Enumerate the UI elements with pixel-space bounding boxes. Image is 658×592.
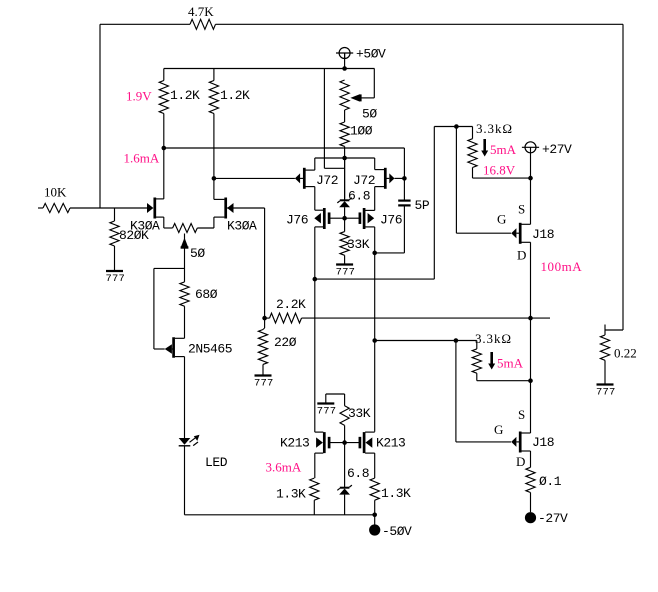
wire output rail <box>302 317 551 319</box>
label 1.9V <box>126 89 152 104</box>
svg-text:16.8V: 16.8V <box>483 163 516 178</box>
wire K213 gate to zener <box>344 443 346 488</box>
wire 1.2K rail drop <box>324 69 344 169</box>
wire right K30A gate <box>227 208 265 318</box>
node -50V junction <box>372 513 377 518</box>
svg-text:5mA: 5mA <box>490 142 517 157</box>
wire -50V stub <box>374 515 376 525</box>
node +50V rail junction <box>342 66 347 71</box>
wire 2N5465 source to LED <box>184 357 186 438</box>
capacitor C1 5P <box>398 201 410 206</box>
wire cascode output rail <box>315 127 473 280</box>
wire input left lead <box>38 207 43 209</box>
node K213 gate junction <box>342 440 347 445</box>
zener D2 6.8 upper <box>337 198 352 208</box>
wire left 1.2K top lead <box>163 69 165 81</box>
svg-text:J76: J76 <box>380 213 402 228</box>
label J72 right <box>353 173 375 188</box>
resistor R 220 <box>258 330 267 365</box>
label 2N5465 <box>188 342 232 357</box>
label 2.2K <box>276 297 306 312</box>
svg-text:G: G <box>497 212 506 227</box>
wire right 1.2K top lead <box>213 69 215 81</box>
label 1.3K left <box>276 487 306 502</box>
label LED <box>205 455 228 470</box>
wire 3.3k lower bottom <box>477 373 531 381</box>
node left drain junction <box>162 146 167 151</box>
transistor Q7 J76 right <box>360 208 375 432</box>
transistor Q8 J18 upper <box>511 223 530 244</box>
resistor R 1.2K left <box>159 81 168 114</box>
svg-text:D: D <box>516 454 525 469</box>
wire lower J18 gate <box>456 341 511 442</box>
svg-text:5Ø: 5Ø <box>362 107 377 122</box>
resistor R 33K lower <box>340 406 349 426</box>
resistor R 4.7K <box>190 19 216 29</box>
label 0.1 <box>539 474 562 489</box>
node +27V junction <box>528 176 533 181</box>
svg-text:J18: J18 <box>532 227 554 242</box>
wire left drain to compensation <box>164 148 405 178</box>
wire lower J18 source <box>521 381 530 433</box>
svg-text:6.8: 6.8 <box>347 466 369 481</box>
wire 0.22 bottom lead <box>604 360 606 384</box>
wire right K30A source <box>197 217 224 228</box>
label 0.22 <box>614 346 637 361</box>
wire left 1.2K bottom lead <box>163 114 165 149</box>
label D lower <box>516 454 525 469</box>
arrow current 5mA lower <box>488 352 495 370</box>
svg-text:LED: LED <box>205 455 228 470</box>
resistor R 1.2K right <box>209 81 218 114</box>
label 5P <box>415 198 430 213</box>
wire upper J18 source <box>521 178 530 224</box>
label 3.6mA <box>266 460 302 475</box>
wire 220 bottom lead <box>262 364 264 375</box>
label G lower <box>494 422 503 437</box>
transistor Q4 J72 left <box>295 158 315 210</box>
svg-text:1.3K: 1.3K <box>381 486 411 501</box>
wire feedback right side <box>605 24 623 330</box>
wire +50V pot wiper feed <box>359 69 375 98</box>
transistor Q6 J76 left <box>314 208 329 279</box>
label 50 trimmer <box>190 246 205 261</box>
wire J76 left gate <box>330 217 345 219</box>
svg-text:+27V: +27V <box>542 142 572 157</box>
svg-text:J18: J18 <box>532 435 554 450</box>
label 6.8 upper <box>348 189 370 204</box>
wire 0.1 to -27V <box>530 493 532 513</box>
svg-text:1.2K: 1.2K <box>170 88 200 103</box>
transistor Q3 2N5465 <box>165 337 185 358</box>
resistor R 2.2K <box>270 313 302 323</box>
svg-text:K3ØA: K3ØA <box>227 219 257 234</box>
label J18 upper <box>532 227 554 242</box>
ground under 820K <box>106 271 126 285</box>
label 10K <box>44 185 67 200</box>
label K30A left <box>130 219 160 234</box>
svg-text:S: S <box>518 202 525 217</box>
power +27V <box>522 142 539 153</box>
wire K213 gate to 33K <box>344 425 346 442</box>
svg-text:22Ø: 22Ø <box>274 335 297 350</box>
wire 2N5465 gate loop <box>154 268 185 349</box>
label J76 left <box>286 213 308 228</box>
svg-text:5Ø: 5Ø <box>190 246 205 261</box>
wire rail to zener <box>344 158 346 200</box>
power -50V <box>369 524 380 535</box>
ground under 33K upper <box>336 265 356 279</box>
node J72 right gate junction <box>402 176 407 181</box>
resistor R 10K <box>43 203 70 212</box>
svg-text:777: 777 <box>106 273 126 285</box>
label 3.3kΩ upper <box>476 121 513 136</box>
wire K213 gates <box>330 442 360 444</box>
svg-text:K213: K213 <box>280 436 309 451</box>
ground above K213 <box>317 404 337 418</box>
wire 2.2K left lead <box>265 317 270 319</box>
wire lower J18 drain <box>530 451 532 467</box>
svg-text:G: G <box>494 422 503 437</box>
label 220 <box>274 335 297 350</box>
label 820K <box>119 228 149 243</box>
wire gate node to 33K <box>344 218 346 231</box>
svg-text:3.6mA: 3.6mA <box>266 460 302 475</box>
svg-text:4.7K: 4.7K <box>188 4 214 19</box>
arrow current 5mA upper <box>481 139 488 157</box>
svg-text:1.3K: 1.3K <box>276 487 306 502</box>
resistor R 680 <box>180 282 189 306</box>
label K30A right <box>227 219 257 234</box>
label S lower <box>518 407 525 422</box>
svg-text:3.3kΩ: 3.3kΩ <box>475 331 512 346</box>
resistor R 33K upper <box>340 232 349 256</box>
node lower bias left junction <box>372 338 377 343</box>
ground under 220 <box>254 376 274 390</box>
svg-text:777: 777 <box>254 378 274 390</box>
label 1.2K right <box>220 88 250 103</box>
resistor R 1.3K right <box>370 478 379 500</box>
svg-text:0.22: 0.22 <box>614 346 637 361</box>
svg-text:5P: 5P <box>415 198 430 213</box>
potentiometer 50 source trimmer <box>173 224 198 233</box>
label -27V <box>538 511 568 526</box>
zener D3 6.8 lower <box>337 485 352 495</box>
svg-text:-5ØV: -5ØV <box>382 524 412 539</box>
node J76 source junction <box>313 277 318 282</box>
svg-text:J72: J72 <box>316 173 338 188</box>
label +27V <box>542 142 572 157</box>
wire input to gate <box>70 207 148 209</box>
resistor R 3.3k lower <box>472 349 481 373</box>
transistor Q2 K30A right <box>214 198 234 219</box>
wire 100 bottom to J72 rail <box>344 146 346 198</box>
svg-text:J76: J76 <box>286 213 308 228</box>
label 1.6mA <box>124 151 160 166</box>
svg-text:Ø.1: Ø.1 <box>539 474 562 489</box>
label 100 <box>350 124 373 139</box>
potentiometer 50 body <box>340 80 349 110</box>
svg-text:+5ØV: +5ØV <box>356 47 386 62</box>
svg-text:3.3kΩ: 3.3kΩ <box>476 121 513 136</box>
svg-text:1ØØ: 1ØØ <box>350 124 373 139</box>
wire LED to negative rail <box>184 446 186 515</box>
node lower gate branch junction <box>454 338 459 343</box>
wire between 50 and 100 <box>344 110 346 122</box>
svg-text:68Ø: 68Ø <box>195 287 218 302</box>
wire J72 left gate <box>214 177 303 179</box>
wire 820K bottom lead <box>114 246 116 271</box>
node 5P junction <box>372 251 377 256</box>
wire 5P top lead <box>403 178 405 199</box>
arrow pot 50 wiper <box>350 94 360 101</box>
wire 1.2K supply rail <box>164 68 375 70</box>
transistor Q11 K213 right <box>360 432 375 478</box>
label D upper <box>517 248 526 263</box>
svg-text:2.2K: 2.2K <box>276 297 306 312</box>
wire 33K to ground <box>344 255 346 264</box>
wire 3.3k lower top lead <box>476 341 478 349</box>
wire J72 source rail <box>315 157 375 159</box>
label 5mA lower <box>497 356 524 371</box>
label G upper <box>497 212 506 227</box>
ground under 0.22 <box>596 385 616 399</box>
label -50V <box>382 524 412 539</box>
label 1.3K right <box>381 486 411 501</box>
arrow trimmer wiper <box>181 234 189 248</box>
svg-text:-27V: -27V <box>538 511 568 526</box>
label +50V <box>356 47 386 62</box>
transistor Q1 K30A left <box>147 148 164 219</box>
wire 220 top lead <box>263 318 265 329</box>
wire 820K top lead <box>114 208 116 221</box>
label 50 upper <box>362 107 377 122</box>
resistor R 3.3k upper <box>468 139 477 168</box>
resistor R 820K <box>110 221 119 246</box>
node lower 3.3k junction <box>528 378 533 383</box>
svg-text:K3ØA: K3ØA <box>130 219 160 234</box>
wire 0.22 top lead <box>604 325 606 336</box>
node J76 gate junction <box>342 216 347 221</box>
node 2.2K junction <box>262 316 267 321</box>
svg-text:K213: K213 <box>376 436 405 451</box>
svg-text:33K: 33K <box>347 237 370 252</box>
wire 1.3K right bottom <box>374 500 376 515</box>
label J76 right <box>380 213 402 228</box>
wire 1.3K left bottom <box>313 500 315 515</box>
wire 680 to 2N5465 <box>184 306 186 338</box>
resistor R 0.22 <box>600 335 609 360</box>
wire +27V to junction <box>530 153 532 178</box>
svg-text:777: 777 <box>317 406 337 418</box>
transistor Q9 J18 lower <box>511 432 530 453</box>
wire right 1.2K drain column <box>213 114 215 200</box>
resistor R 1.3K left <box>310 478 319 500</box>
label 680 <box>195 287 218 302</box>
label 4.7K <box>188 4 214 19</box>
svg-text:J72: J72 <box>353 173 375 188</box>
power -27V <box>525 512 536 523</box>
svg-text:D: D <box>517 248 526 263</box>
wire J76 right gate <box>345 217 360 219</box>
wire zener lower to rail <box>344 495 346 515</box>
resistor R 0.1 <box>526 467 535 492</box>
wire 3.3k upper top lead <box>472 127 474 139</box>
wire 33K lower to ground <box>326 394 345 406</box>
wire negative rail <box>185 514 375 516</box>
label 33K lower <box>348 406 371 421</box>
label K213 right <box>376 436 405 451</box>
svg-text:1.6mA: 1.6mA <box>124 151 160 166</box>
wire zener to gate node <box>344 207 346 218</box>
node J72 source rail junction <box>342 156 347 161</box>
svg-text:33K: 33K <box>348 406 371 421</box>
label 16.8V <box>483 163 516 178</box>
wire trimmer wiper down <box>184 248 186 282</box>
power +50V <box>336 48 353 59</box>
wire 5P bottom lead <box>375 205 405 253</box>
LED D1 <box>179 435 200 446</box>
label 100mA <box>541 259 583 274</box>
svg-text:S: S <box>518 407 525 422</box>
wire upper J18 gate <box>456 127 511 234</box>
svg-text:10K: 10K <box>44 185 67 200</box>
label 1.2K left <box>170 88 200 103</box>
label 33K upper <box>347 237 370 252</box>
svg-text:100mA: 100mA <box>541 259 583 274</box>
label K213 left <box>280 436 309 451</box>
wire +50V stem <box>344 53 346 69</box>
transistor Q5 J72 right <box>375 158 405 210</box>
transistor Q10 K213 left <box>315 279 329 478</box>
wire feedback left vertical <box>99 24 101 208</box>
resistor R 100 <box>340 122 349 146</box>
label 5mA upper <box>490 142 517 157</box>
wire feedback top rail <box>100 23 623 25</box>
label S upper <box>518 202 525 217</box>
label J72 left <box>316 173 338 188</box>
label 6.8 lower <box>347 466 369 481</box>
label J18 lower <box>532 435 554 450</box>
node output J18 junction <box>528 316 533 321</box>
svg-text:777: 777 <box>596 387 616 399</box>
wire upper J18 drain <box>530 242 532 380</box>
svg-text:2N5465: 2N5465 <box>188 342 232 357</box>
node upper gate branch junction <box>454 124 459 129</box>
wire left K30A source <box>156 217 173 228</box>
label 3.3kΩ lower <box>475 331 512 346</box>
svg-text:1.9V: 1.9V <box>126 89 152 104</box>
svg-text:777: 777 <box>336 267 356 279</box>
node right drain junction <box>212 176 217 181</box>
svg-text:5mA: 5mA <box>497 356 524 371</box>
wire 3.3k upper bottom <box>473 168 531 179</box>
svg-text:1.2K: 1.2K <box>220 88 250 103</box>
svg-text:6.8: 6.8 <box>348 189 370 204</box>
wire lower bias rail <box>375 340 477 342</box>
